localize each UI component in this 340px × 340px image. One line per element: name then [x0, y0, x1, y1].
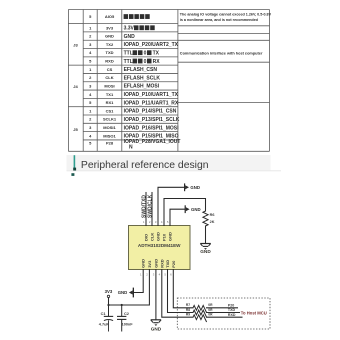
svg-text:2: 2 [146, 272, 148, 276]
svg-text:3V3: 3V3 [105, 289, 113, 294]
svg-text:5: 5 [167, 220, 169, 224]
svg-text:1: 1 [143, 220, 145, 224]
wire U1 pin CLK up to net SWD/CLK [151, 193, 153, 226]
svg-text:0R: 0R [208, 313, 213, 317]
svg-text:0R: 0R [208, 303, 213, 307]
svg-text:DIO: DIO [144, 234, 149, 241]
wire U1 bottom GND pin 3 to earth ground [155, 270, 157, 320]
U1 bottom pin numbers [140, 272, 172, 276]
wire U1 3V3 pin to 3V3 rail [109, 270, 150, 306]
wire R7 to net P20 [207, 307, 238, 309]
svg-text:R7: R7 [186, 303, 190, 307]
svg-text:RXD: RXD [228, 313, 236, 317]
resistor R7 0R [193, 305, 207, 312]
svg-text:GND: GND [153, 259, 158, 268]
junction node at C2 top [121, 304, 123, 306]
resistor R8 0R [193, 310, 207, 317]
svg-text:C1: C1 [101, 311, 107, 316]
svg-text:R6: R6 [210, 213, 215, 217]
svg-text:GND: GND [156, 232, 161, 241]
capacitor C2 100nF [117, 305, 133, 332]
svg-text:GND: GND [141, 259, 146, 268]
svg-text:100nF: 100nF [122, 323, 134, 327]
wire U1 pin to resistor R9 [162, 270, 193, 318]
power port 3V3 [105, 289, 113, 297]
svg-text:GND: GND [191, 207, 201, 212]
svg-text:4: 4 [161, 220, 163, 224]
wire U1 bottom GND pin 1 to GND port [134, 270, 143, 293]
wire U1 top GND pin to GND port 1 [158, 187, 184, 225]
svg-text:5: 5 [164, 272, 166, 276]
svg-text:CLK: CLK [150, 233, 155, 241]
svg-text:P20: P20 [228, 304, 234, 308]
svg-text:2: 2 [149, 220, 151, 224]
wire R6 to ground [205, 226, 207, 244]
ground earth symbol below U1 [151, 320, 162, 332]
wire U1 top GND pin 5 to GND port 2 [170, 209, 185, 225]
svg-text:1: 1 [140, 272, 142, 276]
svg-text:GND: GND [168, 232, 173, 241]
svg-text:GND: GND [190, 185, 200, 190]
svg-text:4.7uF: 4.7uF [99, 323, 110, 327]
svg-text:GND: GND [200, 249, 211, 254]
svg-text:GND: GND [118, 290, 128, 295]
resistor R6 2K [203, 211, 215, 226]
svg-text:6: 6 [170, 272, 172, 276]
resistor R9 0R [193, 315, 207, 322]
svg-text:To Host MCU: To Host MCU [241, 311, 267, 316]
ground port GND bottom left [118, 288, 134, 298]
svg-text:P20: P20 [171, 260, 176, 268]
wire R9 to net RXD [207, 316, 243, 318]
junction node at C1 top [107, 304, 109, 306]
resistor R9 designator and value 0R [186, 313, 213, 317]
svg-text:C2: C2 [124, 311, 130, 316]
svg-text:3: 3 [155, 220, 157, 224]
svg-text:4: 4 [159, 272, 161, 276]
svg-text:TXD: TXD [228, 308, 236, 312]
svg-text:ADTH3102DM41EW: ADTH3102DM41EW [138, 243, 181, 248]
svg-text:R9: R9 [186, 313, 190, 317]
resistor R8 designator and value 0R [186, 308, 213, 312]
ground earth symbol below R6 [200, 244, 211, 255]
svg-text:3: 3 [153, 272, 155, 276]
resistor R7 designator and value 0R [186, 303, 213, 307]
wire U1 pin to resistor R8 [168, 270, 194, 313]
wire U1 pin P10 to resistor R6 [164, 199, 206, 226]
wire R8 to net TXD [207, 312, 240, 314]
svg-text:3V3: 3V3 [147, 260, 152, 268]
ground port GND top 2 [185, 205, 201, 213]
svg-text:SWD/CLK: SWD/CLK [148, 194, 154, 218]
svg-text:RXD: RXD [159, 259, 164, 268]
To Host MCU dashed block [177, 298, 270, 329]
U1 top pin numbers [143, 220, 169, 224]
svg-text:GND: GND [151, 327, 162, 332]
svg-text:2K: 2K [210, 220, 215, 224]
wire U1 pin to resistor R7 [173, 270, 193, 308]
svg-text:P10: P10 [162, 233, 167, 241]
svg-text:SWD/TXD: SWD/TXD [141, 195, 147, 218]
wire 3V3 port down to rail [108, 298, 110, 305]
ground port GND top 1 [184, 183, 200, 191]
wire U1 pin DIO up to net SWD/TXD [145, 193, 147, 226]
svg-text:0R: 0R [208, 308, 213, 312]
capacitor C1 4.7uF [99, 305, 113, 332]
op-amp U1 main IC body ADTH3102DM41EW [129, 226, 191, 270]
svg-text:R8: R8 [186, 308, 190, 312]
svg-text:TXD: TXD [165, 260, 170, 268]
